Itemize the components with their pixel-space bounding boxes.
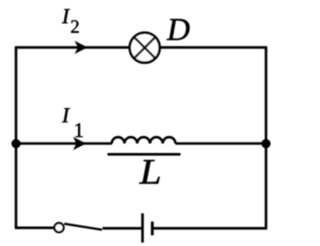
arrow I1 current direction — [73, 137, 86, 150]
wire top right segment — [160, 46, 267, 49]
label I2 — [62, 9, 70, 23]
lamp D — [130, 33, 160, 63]
switch pivot circle — [54, 223, 63, 232]
wire top left segment — [15, 46, 130, 49]
arrow I2 current direction — [75, 41, 88, 54]
label D — [167, 19, 190, 40]
label I1 — [62, 108, 70, 122]
wire bottom middle segment — [103, 227, 142, 230]
junction node left — [11, 139, 20, 148]
wire left vertical — [15, 47, 18, 227]
junction node right — [261, 139, 270, 148]
wire bottom right segment — [154, 227, 268, 230]
battery long plate — [141, 213, 144, 242]
wire middle left segment — [15, 142, 112, 145]
label L — [139, 160, 160, 184]
battery short plate — [151, 222, 154, 236]
wire middle right segment — [175, 142, 267, 145]
inductor L coil — [112, 137, 176, 143]
wire bottom left segment — [15, 227, 54, 230]
wire right vertical — [265, 47, 268, 227]
switch blade — [64, 224, 102, 230]
inductor core bar — [108, 153, 181, 156]
